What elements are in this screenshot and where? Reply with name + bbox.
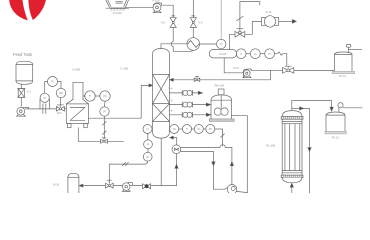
- valve FCV: [59, 98, 61, 107]
- svg-text:TI: TI: [89, 95, 91, 98]
- instrument PT: [217, 39, 226, 48]
- wire E-100 to PT: [200, 43, 217, 45]
- arrow into tank B-10: [79, 184, 83, 187]
- signal with slash to top: [240, 2, 260, 29]
- signal PT riser: [220, 0, 222, 39]
- condenser shell sides: [282, 119, 302, 175]
- condenser shell top dome: [282, 111, 302, 117]
- column C-100: [153, 49, 170, 139]
- signal hook from PP: [215, 129, 223, 146]
- heat exchanger E-100: [187, 38, 200, 51]
- inlet arrow at condenser bottom: [290, 183, 293, 187]
- outlet arrow: [279, 20, 293, 22]
- three-way circulation valve: [172, 145, 181, 154]
- condenser overhead wire to TK-12: [292, 101, 332, 111]
- tank TK-11: [334, 52, 352, 71]
- valve V-6: [285, 66, 291, 67]
- wire A with hop to pump riser: [181, 145, 232, 185]
- instrument PP: [203, 128, 206, 130]
- svg-text:Feed Tank: Feed Tank: [13, 52, 33, 57]
- circulation pump: [227, 185, 237, 195]
- instrument PI2: [147, 134, 149, 140]
- instrument PI: [260, 53, 265, 55]
- svg-text:B-10: B-10: [54, 183, 60, 187]
- svg-text:LI: LI: [240, 53, 242, 56]
- svg-text:FCV: FCV: [57, 112, 62, 115]
- condenser tubes: [285, 124, 300, 171]
- svg-text:PI: PI: [268, 53, 271, 56]
- condenser bottom tube sheet: [281, 175, 303, 177]
- V-4 wire from column: [170, 92, 199, 94]
- wire B to pump suction: [181, 151, 228, 189]
- tank TK-12: [326, 112, 345, 131]
- hopper CT-100: [106, 0, 129, 7]
- svg-text:P-10: P-10: [266, 10, 272, 14]
- branch wire with arrow down right side: [292, 107, 300, 109]
- valve V-1: [18, 89, 24, 98]
- svg-text:TI: TI: [186, 128, 188, 131]
- reflux loop wire: [174, 70, 271, 80]
- svg-text:H-100: H-100: [73, 68, 81, 72]
- svg-text:TK-11: TK-11: [339, 74, 347, 78]
- V-6 wire from column: [170, 114, 207, 116]
- instrument LG: [246, 53, 250, 55]
- arrow into mixer top: [206, 103, 210, 106]
- svg-text:Ex-100: Ex-100: [266, 143, 275, 147]
- valve on furnace drain: [101, 139, 108, 143]
- ball valve on bottoms line: [143, 184, 151, 189]
- instrument LP: [147, 149, 149, 153]
- instrument TE: [170, 125, 179, 134]
- svg-text:TC: TC: [197, 128, 200, 131]
- instrument LI: [236, 49, 246, 59]
- signal zigzag to valve: [275, 52, 287, 65]
- vent box on TK-11: [346, 44, 351, 47]
- drum top stub to valve: [230, 34, 235, 49]
- valve V-3: [192, 16, 195, 18]
- instrument FT: [40, 99, 50, 109]
- control valve on vapor line: [235, 32, 245, 38]
- drum bottom outlet wire: [224, 58, 243, 73]
- mixer vessel: [211, 95, 232, 119]
- valve outlet to compressor: [245, 21, 262, 34]
- svg-text:V-1: V-1: [27, 90, 32, 94]
- wire hopper to pump: [126, 7, 153, 9]
- bottoms line wire: [83, 185, 177, 187]
- condenser lower band: [282, 171, 302, 173]
- svg-text:LG: LG: [254, 53, 257, 56]
- tank B-10: [68, 173, 79, 193]
- instrument RO: [95, 95, 100, 97]
- feed tank T-1: [16, 61, 33, 84]
- signal VP to drain valve: [103, 116, 105, 138]
- svg-text:PT: PT: [220, 43, 224, 46]
- supply wire to V-3: [192, 0, 194, 16]
- wire valve down to bottoms line: [176, 154, 178, 186]
- orifice plate FE: [42, 104, 44, 114]
- svg-text:V-3: V-3: [198, 20, 203, 24]
- svg-text:FC: FC: [51, 81, 54, 84]
- svg-text:P-102: P-102: [153, 0, 160, 2]
- svg-text:PP: PP: [209, 128, 213, 131]
- svg-text:MP: MP: [59, 92, 63, 95]
- instrument TI: [84, 95, 86, 97]
- rotary feeder V-5: [182, 102, 192, 107]
- svg-text:TE: TE: [173, 128, 176, 131]
- instrument VP: [104, 101, 107, 107]
- furnace bottom outlet wire: [78, 128, 123, 142]
- reboiler return wire and arrow: [174, 138, 177, 145]
- instrument MP: [56, 88, 65, 97]
- mixer outlet wire: [232, 116, 248, 193]
- svg-text:V-5: V-5: [168, 99, 173, 103]
- svg-text:LP: LP: [146, 156, 149, 159]
- svg-text:VP: VP: [103, 111, 107, 114]
- condenser bottom dome: [282, 178, 302, 183]
- V-5 wire from column: [170, 104, 207, 106]
- rotary feeder V-6: [182, 112, 192, 117]
- drum D-100: [209, 49, 236, 58]
- rotary feeder V-4: [182, 90, 192, 95]
- instrument FC: [45, 82, 61, 94]
- feed arrow into column: [149, 84, 153, 87]
- wire valve to pump: [20, 97, 22, 106]
- svg-text:RO: RO: [103, 95, 107, 98]
- svg-text:PM-100: PM-100: [215, 84, 225, 88]
- logo: [9, 0, 46, 20]
- svg-text:V-4: V-4: [168, 87, 173, 91]
- svg-text:PI: PI: [147, 143, 150, 146]
- valve V-2: [172, 16, 175, 18]
- instrument TC: [192, 128, 195, 130]
- furnace outlet to column wire: [89, 85, 150, 118]
- pump on bottoms line: [128, 183, 132, 185]
- mixer motor box: [218, 89, 224, 95]
- condenser top tube sheet: [281, 116, 303, 119]
- wire tank to valve: [20, 84, 22, 88]
- instrument TI2: [179, 128, 183, 130]
- wire V-2 down with hop: [171, 27, 193, 51]
- furnace H-100: [73, 82, 83, 99]
- condenser upper band: [282, 121, 302, 123]
- svg-text:CT-100: CT-100: [113, 11, 122, 15]
- vent curl on TK-12: [338, 108, 340, 112]
- svg-text:P-10: P-10: [234, 66, 240, 70]
- svg-text:V-6: V-6: [168, 109, 173, 113]
- arrow on V-4 line: [198, 91, 202, 94]
- gate valve on bottoms line: [107, 180, 111, 183]
- wire valve to TK-11: [294, 69, 335, 71]
- instrument LT: [143, 125, 152, 134]
- svg-text:V-2: V-2: [161, 20, 166, 24]
- signal LP to bottoms valve: [109, 161, 147, 183]
- wire pump discharge: [25, 108, 66, 110]
- arrow into mixer bottom: [206, 113, 210, 116]
- reflux arrow into column: [170, 78, 174, 81]
- pump discharge wire to valve: [251, 69, 283, 71]
- svg-text:D-100: D-100: [219, 53, 226, 56]
- valve on reflux line: [195, 76, 198, 78]
- pump discharge wire: [162, 5, 174, 16]
- column overhead wire to E-100: [161, 44, 187, 49]
- pump P-100: [17, 107, 25, 115]
- column downcomer wire: [160, 138, 162, 185]
- svg-text:C-100: C-100: [121, 66, 129, 70]
- svg-text:TK-12: TK-12: [332, 136, 340, 140]
